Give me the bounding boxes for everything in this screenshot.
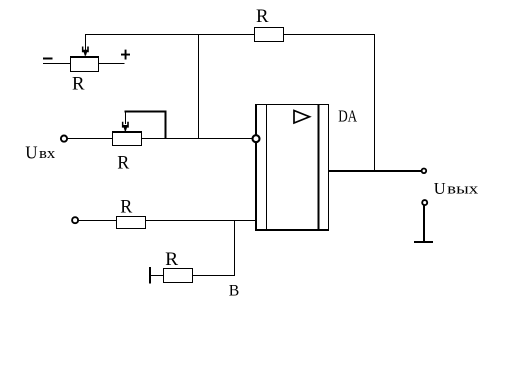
svg-text:вых: вых [447,182,479,198]
svg-text:R: R [256,6,269,27]
svg-text:R: R [72,73,85,94]
svg-text:U: U [434,179,446,198]
svg-text:вх: вх [39,146,56,162]
svg-text:DA: DA [338,107,358,126]
svg-text:R: R [165,249,178,270]
svg-text:R: R [120,196,132,217]
svg-text:R: R [117,153,129,174]
svg-text:В: В [229,283,240,300]
svg-text:U: U [25,142,37,162]
